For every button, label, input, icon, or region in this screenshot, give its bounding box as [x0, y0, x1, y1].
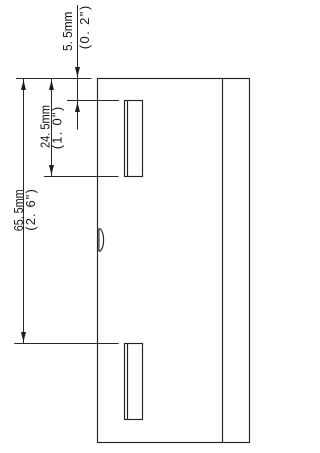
svg-text:(2. 6"): (2. 6"): [23, 189, 38, 231]
svg-text:(0. 2"): (0. 2"): [77, 6, 92, 50]
svg-text:5. 5mm: 5. 5mm: [60, 12, 75, 51]
svg-text:(1. 0"): (1. 0"): [50, 107, 65, 150]
